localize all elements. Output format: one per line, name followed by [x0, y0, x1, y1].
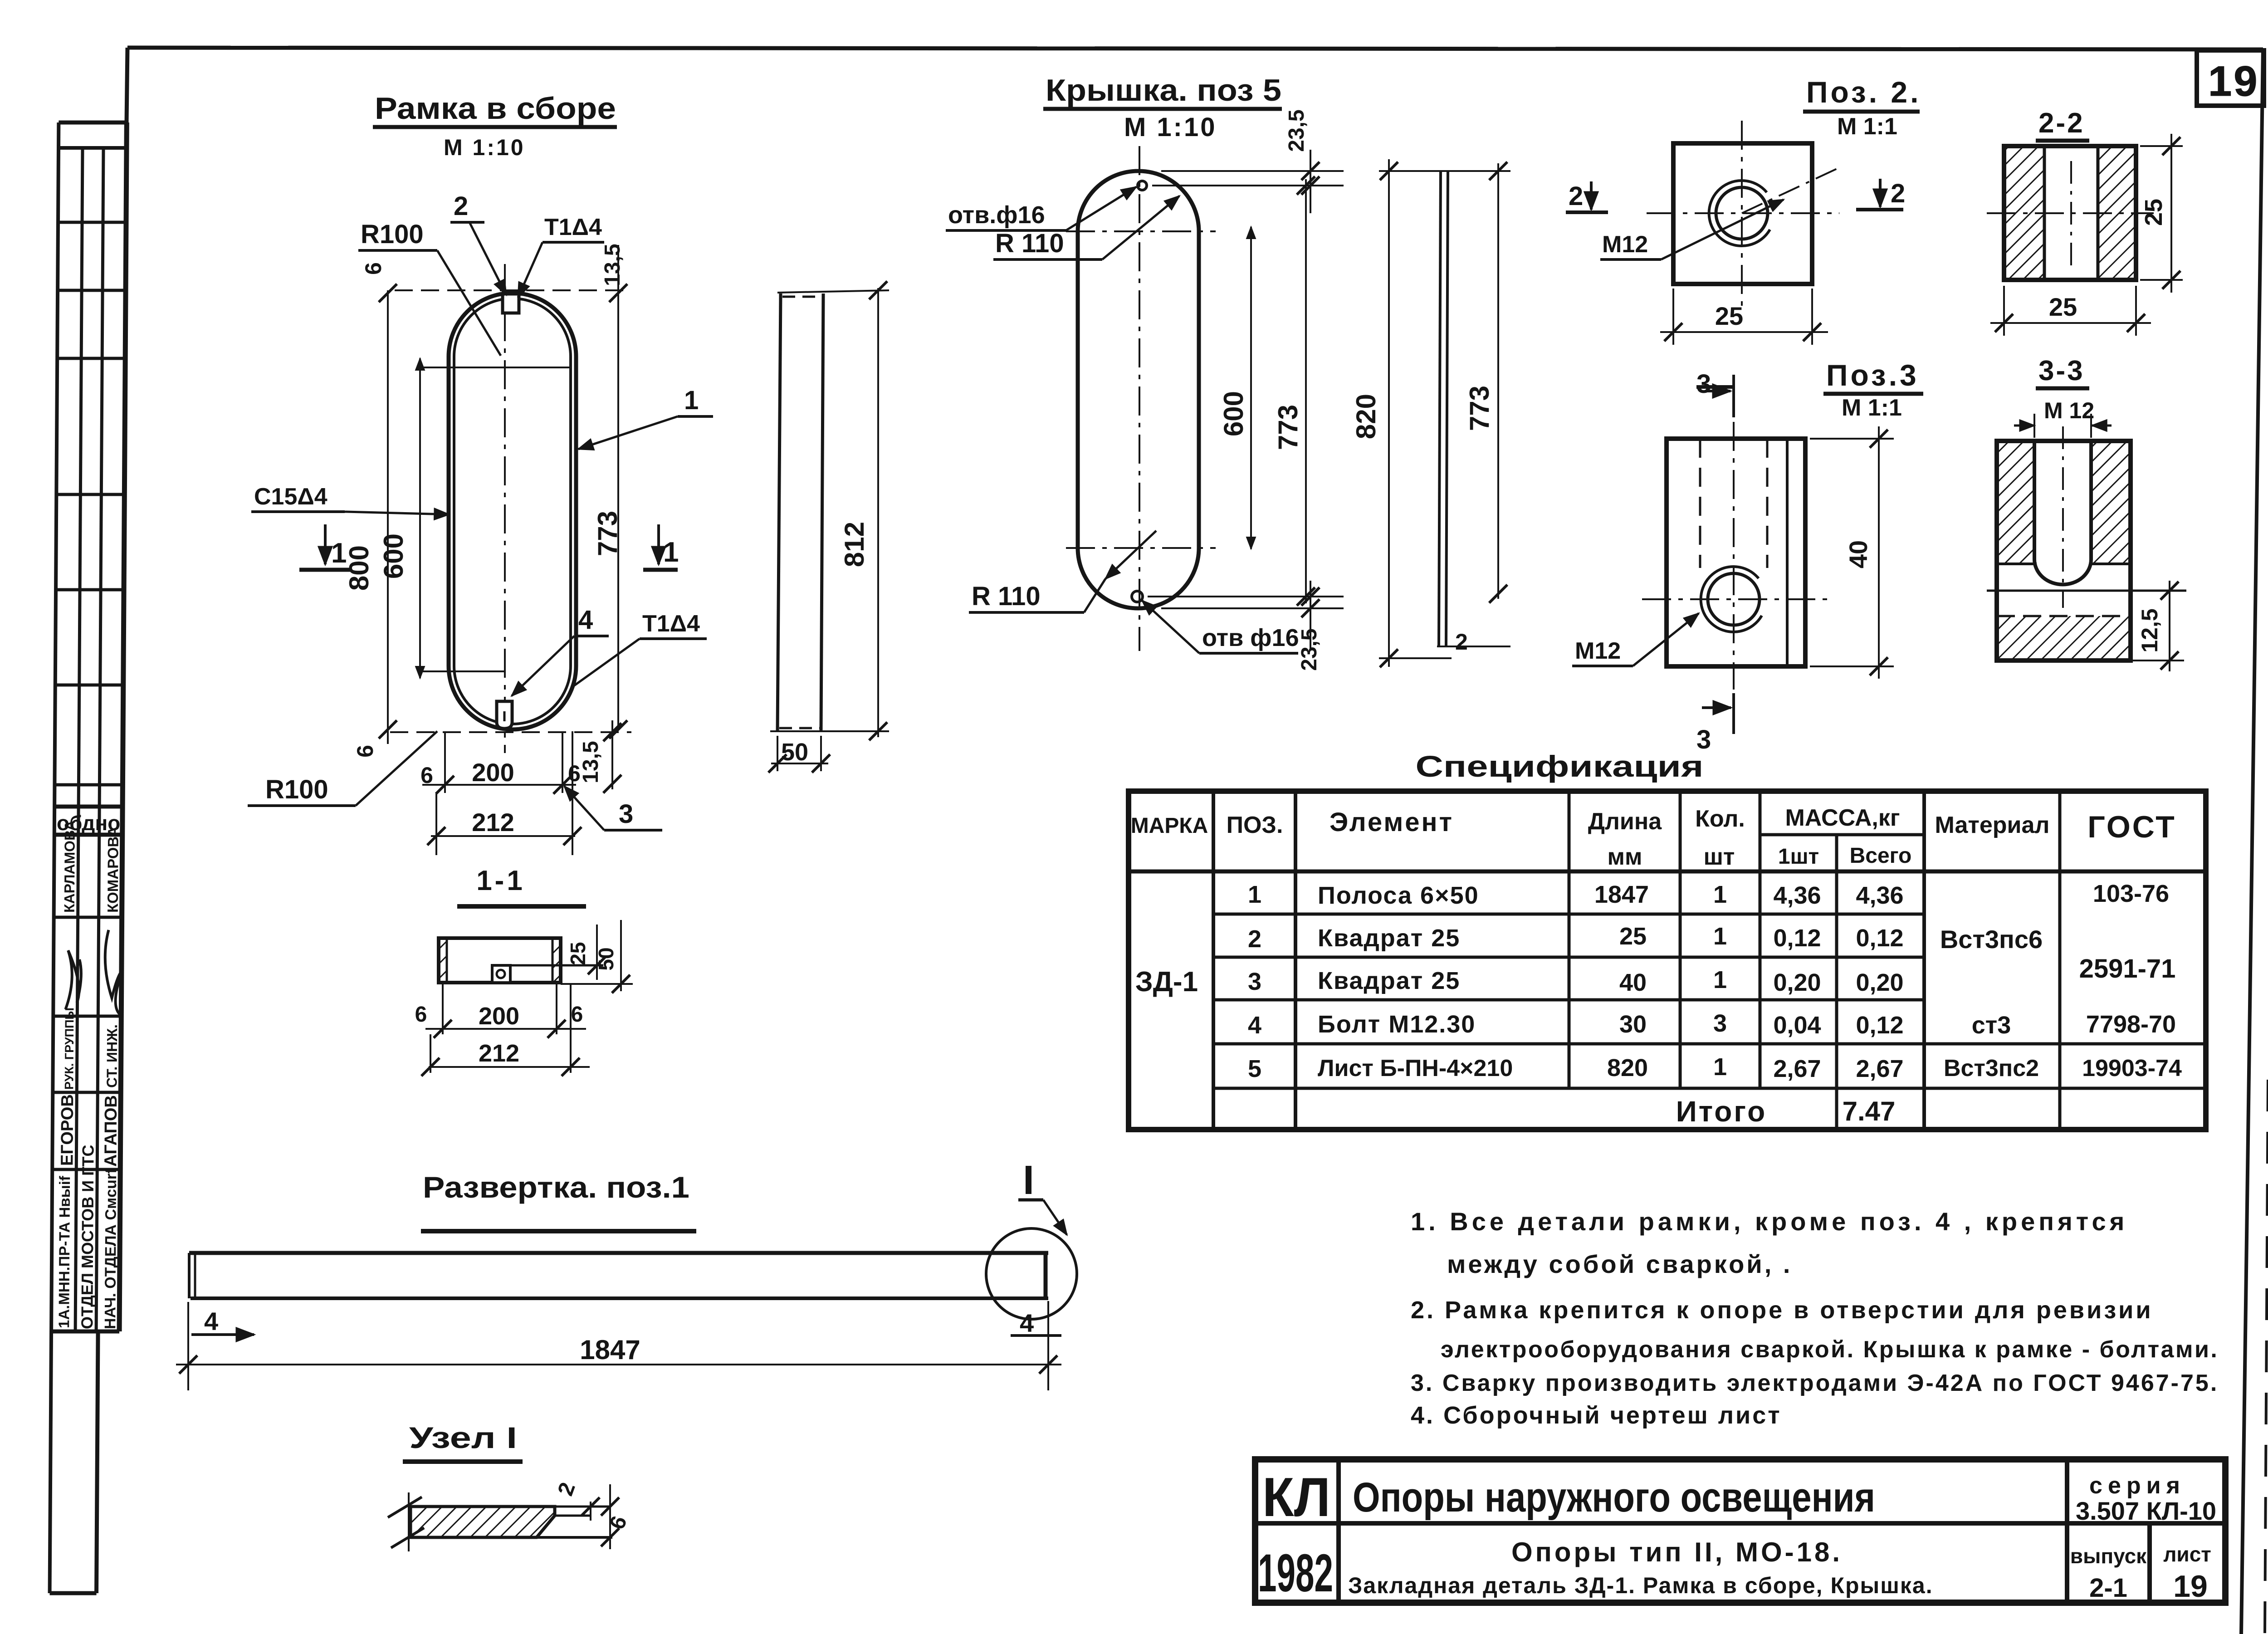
svg-text:19: 19 [2173, 1569, 2208, 1604]
vertical КЛ separator [1336, 1459, 1341, 1603]
dim 23,5 bottom [1310, 581, 1311, 649]
svg-text:23,5: 23,5 [1285, 109, 1309, 152]
svg-text:2: 2 [1248, 925, 1261, 953]
svg-text:4,36: 4,36 [1773, 882, 1821, 909]
svg-text:4: 4 [1248, 1012, 1261, 1039]
hole walls with U bottom [2034, 441, 2091, 584]
svg-text:0,04: 0,04 [1773, 1012, 1821, 1039]
centerline vertical [504, 264, 506, 753]
thread hole outer open [1701, 567, 1762, 632]
dim 773 [1305, 179, 1307, 603]
svg-text:12,5: 12,5 [2137, 608, 2162, 652]
dim 12,5 right [2169, 581, 2170, 671]
top tangent dashed line [395, 289, 631, 291]
dim 800 line [387, 290, 389, 744]
svg-text:АГАПОВ: АГАПОВ [101, 1095, 121, 1167]
svg-text:Материал: Материал [1935, 812, 2050, 838]
hidden hole lines [1699, 439, 1701, 568]
svg-text:Опоры наружного освещения: Опоры наружного освещения [1353, 1474, 1875, 1521]
svg-text:0,12: 0,12 [1856, 925, 1903, 952]
svg-text:электрооборудования сваркой. К: электрооборудования сваркой. Крышка к ра… [1441, 1336, 2219, 1363]
svg-text:13,5: 13,5 [601, 244, 625, 286]
centerline vertical [1741, 121, 1743, 308]
svg-text:ОТДЕЛ МОСТОВ И ГТС: ОТДЕЛ МОСТОВ И ГТС [78, 1145, 97, 1329]
svg-text:ЗД-1: ЗД-1 [1135, 966, 1198, 998]
table horizontal lines [1129, 870, 2206, 874]
svg-text:820: 820 [1607, 1054, 1648, 1081]
centerline horizontal 3-3 [1987, 590, 2186, 592]
svg-text:Рамка в сборе: Рамка в сборе [375, 91, 616, 126]
svg-text:Болт М12.30: Болт М12.30 [1318, 1011, 1476, 1038]
svg-text:R 110: R 110 [995, 229, 1064, 258]
svg-text:600: 600 [1218, 391, 1249, 436]
bolt pos4 at bottom [497, 701, 512, 729]
svg-text:0,12: 0,12 [1773, 925, 1821, 952]
centerline horizontal [1642, 598, 1833, 600]
svg-text:I: I [1023, 1158, 1034, 1203]
strip verticals [50, 122, 59, 1593]
svg-text:2: 2 [454, 191, 468, 221]
bolt head in section [492, 965, 510, 983]
svg-text:ЕГОРОВ: ЕГОРОВ [58, 1094, 77, 1166]
svg-text:103-76: 103-76 [2093, 880, 2169, 907]
dim 50 [777, 736, 778, 771]
bottom extension lines [444, 731, 446, 793]
section 2-2 hatched right wall [2098, 146, 2136, 280]
dim 820 [1388, 159, 1390, 667]
svg-text:ПОЗ.: ПОЗ. [1227, 812, 1283, 838]
svg-text:3: 3 [1248, 968, 1261, 995]
svg-text:6: 6 [361, 262, 386, 275]
section 2-2 body [2004, 146, 2136, 280]
cover plate stadium [1078, 171, 1199, 608]
svg-text:5: 5 [1248, 1055, 1261, 1082]
svg-text:2,67: 2,67 [1773, 1055, 1821, 1082]
svg-text:МАРКА: МАРКА [1131, 814, 1208, 838]
thread hole inner [1708, 573, 1760, 625]
dim 200 [422, 784, 576, 786]
svg-text:Квадрат 25: Квадрат 25 [1318, 925, 1460, 952]
svg-text:М 1:1: М 1:1 [1837, 113, 1897, 140]
svg-text:0,20: 0,20 [1773, 969, 1821, 996]
svg-text:25: 25 [1715, 302, 1743, 330]
svg-text:19: 19 [2208, 57, 2259, 105]
svg-text:3: 3 [1696, 369, 1711, 399]
svg-text:М 12: М 12 [2044, 398, 2094, 423]
svg-text:ГОСТ: ГОСТ [2087, 810, 2176, 844]
svg-text:212: 212 [472, 808, 514, 837]
svg-text:Вст3пс2: Вст3пс2 [1944, 1055, 2039, 1081]
centerline vertical [1139, 146, 1140, 651]
svg-text:4: 4 [578, 605, 593, 635]
3-3 hatch bottom band [1997, 616, 2131, 660]
section mark 1-1 right [643, 568, 678, 572]
3-3 hatch left band [1997, 441, 2034, 564]
svg-text:1шт: 1шт [1778, 845, 1819, 869]
svg-text:4: 4 [204, 1307, 218, 1336]
svg-text:6: 6 [415, 1003, 427, 1027]
svg-text:1А.МНН.ПР-ТА Нвыif: 1А.МНН.ПР-ТА Нвыif [55, 1175, 73, 1328]
svg-text:шт: шт [1704, 844, 1735, 870]
section mark 3 bottom [1732, 693, 1735, 734]
centerline vertical 3-3 [2062, 426, 2064, 608]
svg-text:R 110: R 110 [972, 582, 1041, 611]
dim 212 [429, 1066, 590, 1068]
svg-text:40: 40 [1619, 969, 1647, 996]
channel left wall hatched [439, 938, 447, 983]
svg-text:М 1:10: М 1:10 [444, 135, 525, 160]
svg-text:25: 25 [2049, 293, 2077, 321]
strip left end [188, 1253, 191, 1298]
extension top [1379, 170, 1510, 172]
svg-text:РУК. ГРУППЫ: РУК. ГРУППЫ [62, 1008, 76, 1090]
svg-text:Узел I: Узел I [409, 1421, 517, 1454]
signature squiggles [65, 930, 122, 1014]
dim 25 bottom 2-2 [2003, 286, 2005, 336]
border left upper stub [127, 48, 127, 122]
extension lines right [1161, 170, 1344, 172]
svg-text:1-1: 1-1 [476, 865, 525, 896]
dim 25 right [2140, 145, 2183, 147]
nut pos2 at top [503, 294, 519, 313]
svg-text:25: 25 [2140, 199, 2167, 226]
svg-text:Лист Б-ПН-4×210: Лист Б-ПН-4×210 [1318, 1055, 1513, 1081]
strip top line [189, 1251, 1048, 1255]
channel outline [439, 938, 561, 983]
svg-text:4: 4 [1020, 1309, 1034, 1337]
frame ring outer (полоса 6x50 bent) [449, 293, 576, 729]
svg-text:1: 1 [1713, 881, 1727, 908]
centerline horizontal [1647, 212, 1839, 214]
hatch boundary line [1997, 563, 2037, 565]
bottom extensions [442, 984, 444, 1034]
svg-text:1: 1 [331, 538, 347, 569]
border right dashed outer [2265, 1080, 2268, 1634]
top arc centreline [1066, 230, 1216, 232]
strip right end [1044, 1254, 1048, 1297]
svg-text:2. Рамка крепится к опоре в от: 2. Рамка крепится к опоре в отверстии дл… [1411, 1296, 2153, 1324]
dim 812 line [877, 288, 879, 737]
svg-text:Опоры тип II, МО-18.: Опоры тип II, МО-18. [1511, 1537, 1843, 1567]
dim 40 right [1810, 438, 1894, 440]
svg-text:Полоса 6×50: Полоса 6×50 [1318, 882, 1479, 909]
hole bottom [1132, 591, 1143, 602]
svg-text:Развертка. поз.1: Развертка. поз.1 [423, 1170, 689, 1204]
svg-text:Спецификация: Спецификация [1416, 749, 1704, 783]
svg-text:ст3: ст3 [1972, 1012, 2011, 1039]
svg-text:13,5: 13,5 [579, 741, 603, 783]
svg-text:19903-74: 19903-74 [2082, 1055, 2182, 1081]
border right [2241, 49, 2263, 1634]
frame ring inner [454, 298, 571, 724]
svg-text:М 1:1: М 1:1 [1842, 395, 1902, 421]
svg-text:Закладная деталь ЗД-1. Рамка в: Закладная деталь ЗД-1. Рамка в сборе, Кр… [1348, 1573, 1933, 1598]
svg-text:R100: R100 [361, 220, 424, 249]
svg-text:1. Все детали рамки, кроме поз: 1. Все детали рамки, кроме поз. 4 , креп… [1411, 1207, 2128, 1236]
svg-text:Квадрат 25: Квадрат 25 [1318, 967, 1460, 994]
section mark 1-1 left [299, 568, 350, 572]
svg-text:200: 200 [472, 758, 514, 787]
label 13,5 bottom [611, 720, 613, 789]
svg-text:0,12: 0,12 [1856, 1012, 1903, 1039]
svg-text:2: 2 [1455, 629, 1468, 655]
dim 1847 [176, 1364, 1061, 1365]
svg-text:3: 3 [1713, 1010, 1727, 1037]
svg-text:2,67: 2,67 [1856, 1055, 1903, 1082]
table vertical lines [1212, 791, 1215, 1130]
svg-text:50: 50 [594, 947, 618, 970]
svg-text:3: 3 [619, 799, 633, 829]
thread hole inner [1716, 187, 1768, 239]
svg-text:0,20: 0,20 [1856, 969, 1903, 996]
svg-text:НАЧ. ОТДЕЛА Смcurf: НАЧ. ОТДЕЛА Смcurf [102, 1168, 120, 1329]
svg-text:200: 200 [479, 1003, 519, 1030]
svg-text:1982: 1982 [1258, 1543, 1333, 1603]
vertical выпуск/лист separator [2147, 1523, 2152, 1603]
svg-text:2-1: 2-1 [2089, 1573, 2127, 1603]
svg-text:6: 6 [571, 1003, 583, 1027]
centerline vertical [1733, 422, 1735, 690]
hole centerline [2070, 161, 2072, 272]
frame side view strip [777, 294, 781, 731]
vertical серия separator [2065, 1459, 2069, 1603]
svg-text:3. Сварку производить электрод: 3. Сварку производить электродами Э-42А … [1411, 1370, 2219, 1396]
svg-text:отв.ф16: отв.ф16 [948, 201, 1045, 229]
3-3 body [1997, 441, 2131, 660]
dim 773 line [617, 245, 619, 729]
3-3 hatch right band [2091, 441, 2131, 564]
inner solid line right [1786, 439, 1789, 666]
dim 200 [425, 1028, 586, 1030]
table outer border [1129, 791, 2206, 1130]
svg-text:Вст3пс6: Вст3пс6 [1940, 925, 2043, 954]
svg-text:600: 600 [378, 533, 409, 579]
svg-text:Поз.3: Поз.3 [1826, 358, 1919, 392]
svg-text:1: 1 [1713, 1053, 1727, 1081]
thread diagonal centerline [1742, 167, 1841, 213]
svg-text:812: 812 [839, 522, 870, 567]
svg-text:М 1:10: М 1:10 [1124, 113, 1217, 142]
svg-text:3-3: 3-3 [2038, 355, 2085, 386]
right dim [609, 1484, 611, 1549]
right dims 25 50 [561, 983, 633, 985]
svg-text:Кол.: Кол. [1695, 806, 1745, 832]
svg-text:С15Δ4: С15Δ4 [254, 484, 327, 510]
horizontal middle [1255, 1521, 2225, 1526]
svg-text:50: 50 [781, 739, 808, 766]
svg-text:1847: 1847 [580, 1335, 640, 1365]
svg-text:6: 6 [352, 745, 378, 758]
svg-text:2: 2 [1569, 181, 1583, 211]
svg-text:Т1Δ4: Т1Δ4 [642, 611, 700, 637]
dim 212 [431, 835, 575, 837]
svg-text:1: 1 [684, 386, 699, 415]
cover side view plate [1439, 171, 1441, 646]
thread hole outer (open circle) [1709, 181, 1770, 246]
svg-text:25: 25 [566, 942, 590, 965]
title block outer [1255, 1459, 2225, 1603]
border top [127, 48, 2263, 49]
detail circle I [986, 1228, 1077, 1319]
svg-text:между собой сваркой, .: между собой сваркой, . [1447, 1250, 1792, 1278]
svg-text:отв ф16: отв ф16 [1202, 624, 1299, 651]
svg-text:М12: М12 [1575, 638, 1621, 664]
svg-text:3.507 КЛ-10: 3.507 КЛ-10 [2076, 1497, 2216, 1525]
bottom extension tick line [770, 730, 889, 732]
svg-text:2: 2 [1891, 179, 1905, 208]
svg-text:773: 773 [1273, 405, 1303, 450]
svg-text:2-2: 2-2 [2038, 108, 2085, 139]
svg-text:КАРЛАМОВА: КАРЛАМОВА [61, 820, 78, 913]
svg-text:7798-70: 7798-70 [2086, 1011, 2176, 1038]
nut square body [1673, 143, 1812, 284]
svg-text:серия: серия [2089, 1473, 2185, 1499]
thin lines right [555, 1506, 609, 1508]
svg-text:Итого: Итого [1676, 1095, 1767, 1128]
strip bottom line [191, 1296, 1048, 1300]
svg-text:773: 773 [1464, 386, 1495, 431]
hole walls [2043, 146, 2046, 280]
svg-text:КОМАРОВА: КОМАРОВА [104, 827, 122, 913]
svg-text:7.47: 7.47 [1843, 1096, 1896, 1126]
section 2-2 hatched left wall [2004, 146, 2044, 280]
svg-text:40: 40 [1844, 540, 1872, 568]
bottom arc centre line [417, 670, 505, 672]
svg-text:773: 773 [592, 511, 623, 556]
svg-text:М12: М12 [1602, 231, 1648, 258]
svg-text:1: 1 [1713, 966, 1727, 993]
svg-text:6: 6 [420, 763, 433, 788]
dim 773 right [1497, 163, 1499, 599]
svg-text:МАССА,кг: МАССА,кг [1785, 805, 1900, 831]
top arc centre line [421, 367, 569, 368]
svg-text:1: 1 [1713, 923, 1727, 950]
masse subheader line [1760, 833, 1924, 837]
svg-text:лист: лист [2163, 1542, 2211, 1566]
bottom tangent dashed line [390, 731, 631, 733]
dashed line above bottom band [1997, 615, 2131, 617]
dim 23,5 top [1310, 150, 1311, 213]
svg-text:мм: мм [1608, 844, 1642, 870]
svg-text:1847: 1847 [1594, 881, 1649, 908]
weld bar hatched [411, 1507, 555, 1537]
svg-text:23,5: 23,5 [1297, 628, 1321, 670]
left title strip grid [59, 121, 127, 125]
dim 600 [1250, 227, 1252, 549]
svg-text:КЛ: КЛ [1262, 1466, 1330, 1528]
bolt plate line [510, 964, 603, 967]
svg-text:2591-71: 2591-71 [2079, 954, 2176, 983]
svg-text:Элемент: Элемент [1330, 807, 1454, 837]
svg-text:30: 30 [1619, 1011, 1647, 1038]
sheet number box [2197, 50, 2264, 106]
left ticks [408, 1492, 410, 1551]
svg-text:СТ. ИНЖ.: СТ. ИНЖ. [103, 1024, 120, 1088]
svg-text:Длина: Длина [1588, 808, 1662, 835]
svg-text:1: 1 [663, 537, 679, 568]
channel right wall hatched [552, 938, 561, 983]
extensions for 1847 [187, 1302, 189, 1390]
svg-text:Поз. 2.: Поз. 2. [1806, 75, 1921, 109]
dim 25 bottom [1672, 289, 1674, 345]
svg-text:4. Сборочный чертеш лист: 4. Сборочный чертеш лист [1411, 1402, 1782, 1429]
bottom arc centreline [1066, 547, 1216, 549]
top extension tick line [777, 290, 889, 293]
svg-text:212: 212 [479, 1040, 519, 1067]
svg-text:4,36: 4,36 [1856, 882, 1903, 909]
svg-text:R100: R100 [265, 775, 328, 804]
svg-text:820: 820 [1351, 394, 1381, 439]
hole top [1138, 181, 1147, 190]
block body [1667, 439, 1805, 666]
strip end dashes [782, 296, 822, 298]
svg-text:выпуск: выпуск [2070, 1544, 2147, 1568]
svg-text:Крышка. поз 5: Крышка. поз 5 [1046, 73, 1281, 108]
svg-text:Т1Δ4: Т1Δ4 [544, 214, 602, 240]
dim 600 line [419, 358, 421, 678]
svg-text:25: 25 [1619, 923, 1647, 950]
svg-text:1: 1 [1248, 881, 1261, 908]
centerline horizontal 2-2 [1987, 212, 2154, 214]
svg-text:Всего: Всего [1850, 844, 1912, 868]
